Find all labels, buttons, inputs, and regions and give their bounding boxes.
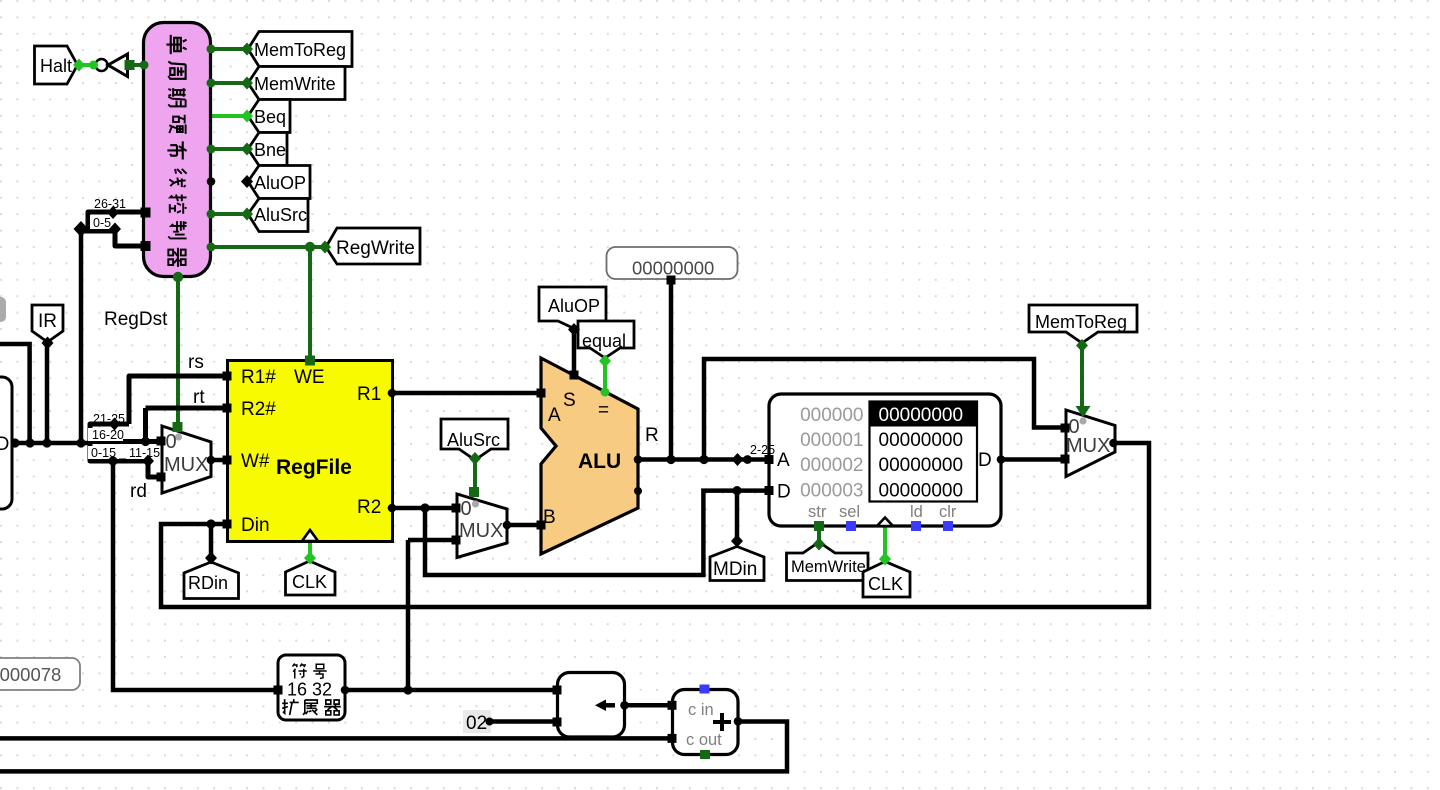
svg-text:0: 0 bbox=[461, 498, 472, 520]
svg-text:R2#: R2# bbox=[241, 399, 276, 420]
svg-text:MUX: MUX bbox=[459, 520, 503, 542]
svg-text:IR: IR bbox=[38, 311, 57, 332]
svg-text:00000000: 00000000 bbox=[632, 258, 714, 279]
svg-text:AluSrc: AluSrc bbox=[254, 205, 307, 225]
svg-text:W#: W# bbox=[241, 451, 270, 472]
svg-text:0: 0 bbox=[166, 431, 177, 453]
svg-text:A: A bbox=[777, 450, 790, 471]
svg-text:MUX: MUX bbox=[1066, 435, 1110, 457]
svg-text:S: S bbox=[563, 390, 576, 411]
svg-text:AluSrc: AluSrc bbox=[447, 430, 500, 450]
svg-text:equal: equal bbox=[582, 331, 626, 351]
svg-text:000002: 000002 bbox=[800, 455, 863, 476]
svg-text:rs: rs bbox=[188, 352, 204, 373]
svg-text:rd: rd bbox=[130, 481, 147, 502]
svg-text:R1: R1 bbox=[357, 384, 381, 405]
svg-text:MemWrite: MemWrite bbox=[791, 558, 866, 576]
svg-text:sel: sel bbox=[839, 503, 860, 521]
svg-text:D: D bbox=[978, 450, 992, 471]
svg-text:D: D bbox=[777, 482, 791, 503]
svg-text:02: 02 bbox=[466, 713, 487, 734]
svg-text:MemWrite: MemWrite bbox=[254, 74, 336, 94]
svg-text:Bne: Bne bbox=[254, 140, 286, 160]
svg-text:MemToReg: MemToReg bbox=[1035, 312, 1127, 332]
svg-text:ALU: ALU bbox=[578, 450, 621, 473]
svg-text:RegFile: RegFile bbox=[276, 456, 352, 479]
svg-text:RegDst: RegDst bbox=[104, 309, 168, 330]
svg-text:16 32: 16 32 bbox=[287, 680, 332, 700]
svg-text:21-25: 21-25 bbox=[93, 412, 125, 426]
svg-text:A: A bbox=[548, 405, 561, 426]
svg-text:clr: clr bbox=[939, 503, 957, 521]
svg-text:2-25: 2-25 bbox=[750, 443, 775, 457]
svg-text:00000000: 00000000 bbox=[879, 455, 964, 476]
svg-text:MUX: MUX bbox=[164, 454, 208, 476]
svg-text:ld: ld bbox=[910, 503, 923, 521]
svg-text:AluOP: AluOP bbox=[548, 296, 600, 316]
svg-text:AluOP: AluOP bbox=[254, 173, 306, 193]
svg-text:R: R bbox=[645, 425, 659, 446]
svg-text:D: D bbox=[0, 434, 9, 455]
svg-text:Beq: Beq bbox=[254, 107, 286, 127]
svg-text:26-31: 26-31 bbox=[94, 197, 126, 211]
svg-text:B: B bbox=[543, 507, 556, 528]
svg-text:000000: 000000 bbox=[800, 405, 863, 426]
svg-text:Din: Din bbox=[241, 515, 270, 536]
svg-text:RDin: RDin bbox=[188, 573, 228, 593]
svg-text:=: = bbox=[598, 400, 609, 421]
svg-text:CLK: CLK bbox=[292, 572, 327, 592]
svg-text:MDin: MDin bbox=[713, 559, 757, 580]
svg-text:00000000: 00000000 bbox=[879, 480, 964, 501]
svg-text:MemToReg: MemToReg bbox=[254, 40, 346, 60]
svg-text:rt: rt bbox=[193, 387, 205, 408]
svg-text:RegWrite: RegWrite bbox=[336, 238, 415, 259]
svg-text:00000000: 00000000 bbox=[879, 430, 964, 451]
svg-text:R1#: R1# bbox=[241, 367, 276, 388]
svg-text:str: str bbox=[808, 503, 827, 521]
svg-text:000003: 000003 bbox=[800, 480, 863, 501]
svg-text:0-5: 0-5 bbox=[93, 216, 111, 230]
svg-text:000001: 000001 bbox=[800, 430, 863, 451]
svg-text:WE: WE bbox=[294, 367, 325, 388]
svg-text:R2: R2 bbox=[357, 497, 381, 518]
svg-text:00000000: 00000000 bbox=[879, 405, 964, 426]
svg-text:c out: c out bbox=[686, 731, 722, 749]
svg-text:c in: c in bbox=[688, 701, 714, 719]
svg-text:00000078: 00000078 bbox=[0, 664, 61, 685]
svg-text:CLK: CLK bbox=[868, 574, 903, 594]
svg-text:Halt: Halt bbox=[40, 56, 72, 76]
svg-text:11-15: 11-15 bbox=[129, 446, 160, 460]
svg-text:0-15: 0-15 bbox=[91, 446, 116, 460]
svg-text:16-20: 16-20 bbox=[92, 428, 124, 442]
